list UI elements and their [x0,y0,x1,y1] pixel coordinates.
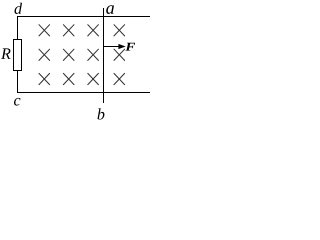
cross row3 col2 [63,73,74,84]
conducting rod ab [103,8,105,103]
label a [106,5,114,14]
cross row1 col2 [63,25,74,36]
wire: left vertical (upper segment, corner d to resistor top) [17,16,19,39]
cross row1 col3 [88,25,99,36]
label c [14,98,20,106]
cross row2 col2 [63,49,74,60]
label b [98,108,105,119]
label F [125,43,135,51]
label d [15,3,23,14]
resistor R (rectangle body) [14,40,22,71]
flux crosses (B into page), grid [39,25,125,85]
cross row3 col1 [39,73,50,84]
force arrow F (shaft) [104,46,120,48]
cross row2 col3 [88,49,99,60]
wire: top rail d-a [17,16,150,18]
cross row3 col3 [88,73,99,84]
cross row2 col1 [39,49,50,60]
label R [1,48,11,58]
cross row3 col4 [114,73,125,84]
cross row1 col4 [114,25,125,36]
wire: bottom rail c-b [17,92,150,94]
force arrow F (head) [118,44,125,49]
wire: left vertical (lower segment, resistor bottom to corner c) [17,71,19,93]
cross row2 col4 [114,49,125,60]
cross row1 col1 [39,25,50,36]
